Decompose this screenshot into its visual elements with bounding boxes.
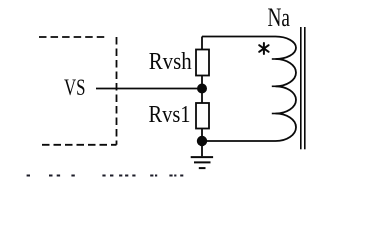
svg-text:Rvsh: Rvsh: [149, 49, 192, 75]
transformer core line 1: [300, 27, 302, 149]
svg-text:Na: Na: [268, 3, 291, 32]
caption text (cut off at bottom edge): [27, 175, 184, 177]
ground bar 1: [191, 156, 213, 158]
dashed box: VS source outline, top edge: [39, 36, 104, 38]
wire: VS output to node A: [96, 88, 202, 90]
wire: node A to Rvs1 top: [201, 89, 203, 104]
resistor Rvs1: [196, 103, 209, 129]
resistor Rvsh: [196, 50, 209, 76]
winding cusp tail 3: [272, 113, 277, 115]
wire: top corner to Rvsh top: [201, 37, 203, 50]
dashed box: VS source outline, bottom edge: [42, 144, 117, 146]
wire: Rvsh bottom to node A: [201, 76, 203, 90]
dashed box: VS source outline, right edge: [116, 37, 118, 145]
winding Na with top and bottom leads: [202, 37, 296, 142]
svg-text:VS: VS: [64, 75, 86, 101]
junction node A (dot): [197, 84, 207, 94]
winding cusp tail 2: [272, 85, 277, 87]
wire: node B to ground: [201, 141, 203, 156]
wire: Rvs1 bottom to node B: [201, 129, 203, 142]
svg-text:Rvs1: Rvs1: [149, 102, 191, 128]
ground bar 3: [199, 167, 206, 169]
ground bar 2: [194, 161, 211, 163]
polarity mark *: [259, 43, 268, 54]
junction node B (dot): [197, 136, 207, 146]
winding cusp tail 1: [272, 58, 277, 60]
transformer core line 2: [304, 27, 306, 149]
